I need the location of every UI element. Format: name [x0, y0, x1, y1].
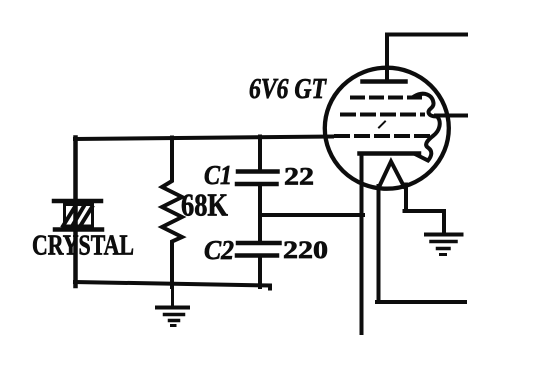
resistor R1 68K (with leads) — [162, 138, 182, 288]
svg-text:CRYSTAL: CRYSTAL — [32, 230, 134, 262]
tube V1 grid 1 (dashed, control grid) — [352, 96, 420, 100]
wire: left vertical (crystal branch) — [73, 138, 78, 287]
wire: screen grid lead (to right) — [436, 114, 466, 118]
capacitor C1 (22 pF) — [237, 137, 278, 217]
tube V1 heater filament (inverted V) — [379, 162, 404, 188]
tube V1 plate (anode bar) — [363, 79, 406, 84]
svg-text:22: 22 — [284, 164, 314, 191]
tube V1 screen-grid squiggle connection — [414, 94, 440, 161]
crystal Y1 top plate — [54, 199, 101, 204]
wire: bottom horizontal (ground bus) — [75, 282, 270, 289]
svg-text:C2: C2 — [204, 235, 234, 265]
tube V1 cathode bar — [360, 151, 420, 156]
wire: heater right leg to ground — [405, 185, 445, 234]
wire: top-left horizontal (grid bus from crystal top to tube grid) — [75, 137, 332, 140]
svg-text:6V6 GT: 6V6 GT — [249, 74, 328, 105]
stray pen mark inside tube — [379, 122, 385, 128]
crystal Y1 body (hatched box) — [63, 205, 93, 229]
svg-text:C1: C1 — [204, 160, 232, 190]
wire: plate lead up and to B+ (right) — [387, 35, 466, 82]
wire: heater left leg down then right — [377, 186, 465, 302]
capacitor C2 (220 pF) — [237, 215, 280, 287]
svg-text:220: 220 — [283, 237, 328, 264]
wire: cathode lead going down — [360, 154, 364, 334]
wire: cathode junction (C1/C2 node to tube cathode) — [260, 213, 363, 217]
crystal Y1 bottom plate — [55, 227, 102, 232]
tube V1 grid 3 (dashed, suppressor) — [336, 134, 428, 138]
ground: tube heater/cathode return — [426, 235, 462, 255]
svg-text:68K: 68K — [181, 187, 228, 223]
ground: below resistor — [157, 287, 188, 326]
tube V1 envelope (6V6 GT circle) — [325, 68, 449, 189]
tube V1 grid 2 (dashed, screen grid) — [342, 113, 423, 117]
